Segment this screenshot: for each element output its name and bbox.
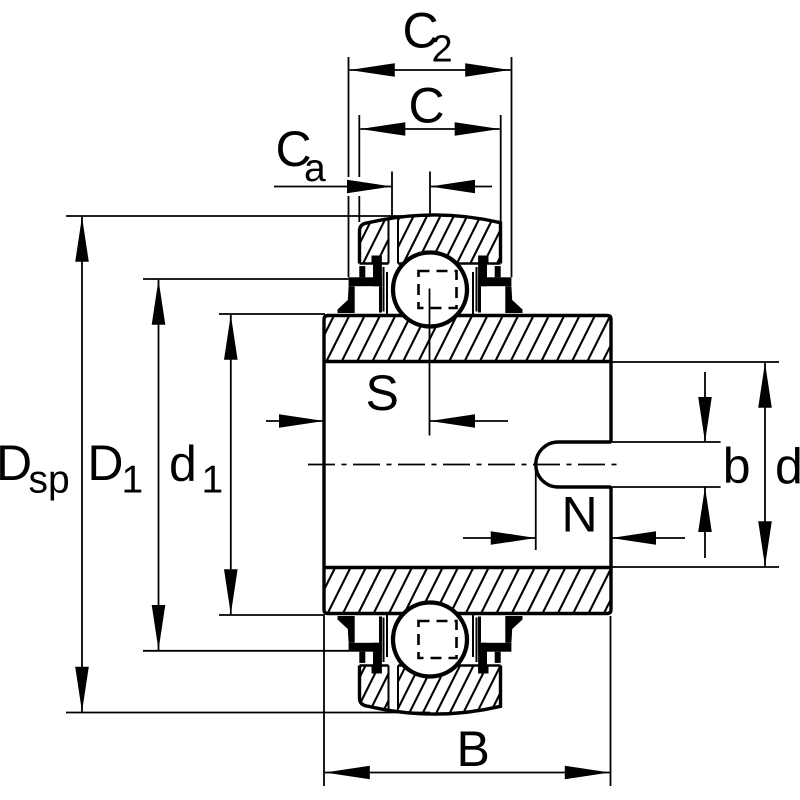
outer ring top outline bbox=[360, 215, 501, 263]
svg-text:C: C bbox=[409, 78, 445, 134]
svg-text:1: 1 bbox=[122, 459, 144, 502]
inner ring bottom band hatching bbox=[266, 568, 673, 614]
lube hole bottom edges bbox=[388, 666, 390, 711]
svg-text:1: 1 bbox=[202, 459, 224, 502]
dim Ca bbox=[274, 186, 392, 188]
svg-text:B: B bbox=[457, 721, 490, 777]
dim C2 bbox=[350, 69, 511, 71]
dim b bbox=[611, 441, 721, 443]
flinger right (black) bottom bbox=[478, 616, 523, 643]
outer ring bottom inner surface bbox=[360, 664, 389, 667]
outer ring top inner surface bbox=[360, 262, 389, 265]
lubrication hole bottom (white channel) bbox=[389, 664, 399, 709]
svg-text:d: d bbox=[775, 439, 800, 495]
dim B bbox=[325, 772, 610, 774]
slot N outline bbox=[536, 442, 611, 487]
dim d bbox=[611, 361, 779, 363]
sleeve bottom OD line bbox=[328, 612, 404, 615]
sleeve corner arcs bbox=[324, 316, 611, 614]
ball top bbox=[393, 253, 467, 327]
flinger right (black) top bbox=[478, 286, 523, 313]
dim D1 bbox=[143, 278, 349, 280]
svg-text:2: 2 bbox=[432, 29, 453, 71]
dim N bbox=[463, 537, 536, 539]
ball bottom bbox=[393, 603, 467, 677]
dim C bbox=[360, 128, 499, 130]
horizontal centerline bbox=[308, 464, 621, 466]
svg-text:S: S bbox=[366, 365, 399, 421]
raceway shoulder lines top bbox=[383, 267, 385, 312]
lube hole top edges bbox=[388, 219, 390, 264]
svg-text:a: a bbox=[304, 147, 326, 190]
sleeve right face bbox=[609, 320, 612, 443]
svg-text:d: d bbox=[169, 436, 197, 492]
outer ring top section hatching bbox=[281, 214, 562, 266]
seal left (black) top bbox=[349, 256, 382, 287]
svg-text:b: b bbox=[723, 438, 751, 494]
outer ring bottom outline bbox=[360, 666, 501, 714]
raceway shoulder lines bottom bbox=[383, 618, 385, 663]
svg-text:D: D bbox=[87, 435, 123, 491]
seal left (black) bottom bbox=[349, 643, 382, 674]
svg-text:N: N bbox=[562, 487, 598, 543]
bore bottom line bbox=[324, 566, 611, 569]
bore top line bbox=[324, 360, 611, 363]
flinger left (black) top bbox=[338, 286, 383, 313]
sleeve top OD line bbox=[328, 314, 404, 317]
dim Dsp bbox=[66, 215, 430, 217]
svg-text:D: D bbox=[0, 435, 32, 491]
flinger left (black) bottom bbox=[338, 616, 383, 643]
inner ring top band hatching bbox=[234, 316, 656, 362]
dim S bbox=[266, 420, 324, 422]
seal right (black) top bbox=[478, 256, 511, 287]
lubrication hole top (white channel) bbox=[389, 220, 399, 265]
outer ring bottom section hatching bbox=[286, 663, 556, 716]
dim d1 bbox=[219, 313, 325, 315]
seal right (black) bottom bbox=[478, 643, 511, 674]
svg-text:sp: sp bbox=[29, 459, 70, 502]
sleeve left face bbox=[322, 320, 325, 610]
